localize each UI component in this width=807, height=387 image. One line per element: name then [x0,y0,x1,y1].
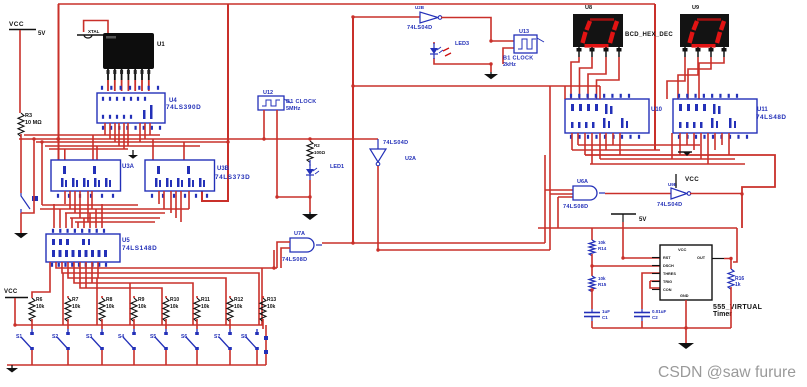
svg-text:S6: S6 [181,334,187,340]
svg-text:U8: U8 [585,5,592,11]
svg-text:U2B: U2B [415,5,425,10]
svg-text:74LS04D: 74LS04D [657,202,682,208]
svg-text:U2A: U2A [405,156,416,162]
svg-text:10k: 10k [72,304,81,310]
svg-text:VCC: VCC [4,289,18,295]
svg-text:0.01uF: 0.01uF [652,309,667,314]
svg-text:1uF: 1uF [602,309,610,314]
svg-text:10k: 10k [138,304,147,310]
svg-text:OUT: OUT [697,256,706,260]
svg-text:LED3: LED3 [455,41,469,47]
svg-text:TRIG: TRIG [663,280,672,284]
svg-text:U12: U12 [263,90,273,96]
svg-text:R13: R13 [267,297,276,303]
svg-text:R6: R6 [36,297,43,303]
svg-text:R11: R11 [201,297,210,303]
svg-text:74LS373D: 74LS373D [215,174,250,181]
svg-text:74LS04D: 74LS04D [383,140,408,146]
svg-text:RST: RST [663,256,671,260]
svg-text:BCD_HEX_DEC: BCD_HEX_DEC [625,32,673,38]
svg-text:74LS08D: 74LS08D [282,257,307,263]
svg-text:5MHz: 5MHz [286,106,301,112]
svg-text:U5: U5 [122,238,130,244]
svg-text:Timer: Timer [713,311,732,318]
svg-text:10k: 10k [36,304,45,310]
svg-text:5V: 5V [38,31,45,37]
svg-text:10k: 10k [170,304,179,310]
svg-text:R14: R14 [598,246,607,251]
svg-text:U9: U9 [692,5,699,11]
svg-text:R2: R2 [314,143,320,148]
svg-text:74LS148D: 74LS148D [122,245,157,252]
svg-text:U11: U11 [757,107,768,113]
svg-text:THRES: THRES [663,272,676,276]
svg-text:R12: R12 [234,297,243,303]
svg-text:S7: S7 [214,334,220,340]
svg-text:B1 CLOCK: B1 CLOCK [286,99,317,105]
svg-text:VCC: VCC [9,21,24,28]
svg-text:U1: U1 [157,42,165,48]
svg-text:10k: 10k [598,276,606,281]
svg-text:74LS390D: 74LS390D [166,104,201,111]
svg-text:U10: U10 [651,107,663,113]
svg-text:VCC: VCC [678,247,687,252]
svg-text:CON: CON [663,288,672,292]
svg-text:VCC: VCC [685,176,699,183]
svg-text:R8: R8 [106,297,113,303]
svg-text:S1: S1 [16,334,22,340]
svg-text:1k: 1k [735,282,741,288]
svg-text:S2: S2 [52,334,58,340]
svg-text:10k: 10k [598,240,606,245]
svg-text:10k: 10k [234,304,243,310]
svg-text:U3A: U3A [122,164,135,170]
svg-text:S8: S8 [241,334,247,340]
svg-text:10 MΩ: 10 MΩ [25,120,42,126]
svg-text:U3B: U3B [217,166,230,172]
svg-text:2kHz: 2kHz [503,62,516,68]
svg-text:R9: R9 [138,297,145,303]
svg-text:U6A: U6A [577,179,588,185]
svg-text:S3: S3 [86,334,92,340]
svg-text:CSDN @saw furure: CSDN @saw furure [658,364,796,381]
svg-text:S4: S4 [118,334,124,340]
svg-text:74LS48D: 74LS48D [756,114,787,121]
svg-text:DSCH: DSCH [663,264,674,268]
svg-text:74LS08D: 74LS08D [563,204,588,210]
svg-text:XTAL: XTAL [88,29,100,34]
svg-text:R3: R3 [25,113,32,119]
svg-text:C2: C2 [652,315,658,320]
svg-text:R7: R7 [72,297,79,303]
svg-text:U7A: U7A [294,231,305,237]
svg-text:B1 CLOCK: B1 CLOCK [503,56,534,62]
svg-text:74LS04D: 74LS04D [407,25,432,31]
svg-text:5V: 5V [639,217,646,223]
svg-text:S5: S5 [150,334,156,340]
svg-text:10k: 10k [267,304,276,310]
svg-text:100Ω: 100Ω [314,150,326,155]
svg-text:LED1: LED1 [330,164,344,170]
svg-text:10k: 10k [106,304,115,310]
svg-text:555_VIRTUAL: 555_VIRTUAL [713,304,763,311]
svg-text:R10: R10 [170,297,179,303]
svg-text:GND: GND [680,294,689,298]
svg-text:C1: C1 [602,315,608,320]
svg-text:10k: 10k [201,304,210,310]
svg-text:R15: R15 [598,282,607,287]
svg-text:U13: U13 [519,29,529,35]
